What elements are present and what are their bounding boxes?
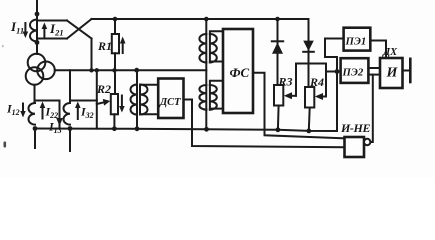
R3 wiper arrow [290,95,296,97]
svg-text:R2: R2 [96,82,111,96]
label R1 [97,39,112,53]
wire: T3 lower right bottom stub to FS [210,109,224,110]
current transformer TA2 winding (2 bumps) [28,103,35,125]
wire: T3 lower left bottom to bottom bus [205,110,207,130]
wire: T3 lower right top stub to FS [210,81,224,85]
wire: phase B drop from T1 to winding [34,85,36,103]
wire: T3 upper right top stub to FS [210,31,224,34]
junction dot [95,68,99,72]
label DST [159,97,181,108]
resistor R1 [112,34,119,53]
wire: R2 wiper arrow [97,102,104,104]
resistor R4 (with wiper) [305,87,314,108]
wire: phase C tail [69,129,71,152]
wire: middle bus [55,69,207,71]
svg-text:I12: I12 [6,102,20,118]
wire: I block output [403,70,409,72]
block DST [158,79,183,119]
wire: T3 upper left top to top bus [205,19,207,34]
wire: transposition X crossing [67,21,92,39]
label PE1 [345,36,367,48]
svg-text:I21: I21 [49,21,64,38]
wire: wiper link R3-R4 (pi shape) [296,64,326,97]
label I [386,66,399,81]
svg-text:ПЭ2: ПЭ2 [342,67,364,79]
svg-text:R3: R3 [278,74,293,88]
wire: I22 loop right side with I13 down arrow [59,101,61,129]
output terminal bar [409,59,412,82]
transformer T3 upper right winding (3 bumps with chord) [210,34,217,63]
wire: T2 left top to middle bus [136,70,138,84]
junction dot [204,127,209,132]
wire: PE1 output to I block top [370,41,386,59]
transformer T3 upper left winding (3 bumps with chord) [199,34,206,63]
wire: phase B tail [34,129,36,149]
svg-text:I32: I32 [80,105,94,121]
block PE2 [341,58,369,83]
svg-text:ДСТ: ДСТ [159,97,181,108]
diode VD1 [277,19,279,85]
junction dot [275,17,280,22]
transformer T3 lower right winding (3 bumps with chord) [210,85,217,110]
scan speck left edge [4,142,7,148]
label PE2 [342,67,364,79]
label I22 with up arrow [42,105,44,119]
junction dot [68,126,73,131]
label DH [382,47,398,58]
transformer T2 left winding (3 bumps with chord) [131,85,138,115]
label I13 [48,120,62,136]
junction dot [276,127,281,132]
arrow down beside R2 [121,96,123,108]
label I32 with up arrow [77,105,79,119]
svg-text:ПЭ1: ПЭ1 [345,36,367,48]
wire: primary phase A vertical [36,1,38,54]
svg-text:I22: I22 [45,105,59,121]
label R2 [96,82,111,96]
svg-text:ДХ: ДХ [382,47,398,58]
wire: branch from bottom bus to AND-NOT input 1 [265,129,345,138]
wire: branch to PE2 input [326,71,341,73]
wire: R1 top feed from top bus [114,19,116,34]
svg-text:ФС: ФС [230,65,250,80]
label I21 with up arrow [43,26,45,37]
junction dot [89,68,93,72]
transformer T3 lower left winding (3 bumps with chord) [199,85,206,110]
wire: I32 loop top edge [70,100,97,102]
wire: I22 loop top edge [35,100,60,102]
wire: loop right side / R2 wiper riser [96,70,98,128]
resistor R2 (with wiper) [111,94,118,114]
label R3 [278,74,293,88]
svg-text:И-НЕ: И-НЕ [340,121,370,135]
block I (DH) [380,58,403,88]
wire: I21 measuring loop top edge [37,20,67,22]
transformer T1 (three overlapping circles) [28,54,46,72]
label I12 with down arrow [6,102,20,118]
svg-text:I11: I11 [10,19,24,36]
wire: T3 upper right bottom stub to FS [210,62,224,63]
junction dot [33,126,38,131]
svg-text:R4: R4 [309,75,324,89]
junction dot [35,12,40,17]
junction dot [35,40,40,45]
label R4 [309,75,324,89]
wire: riser from bottom bus to PE1 (zigzag) [325,39,344,132]
wire: T2 right bottom stub to DST [140,113,159,115]
junction dot [113,17,118,22]
wire: R3 bottom to bottom bus [277,106,280,130]
wire: series link T3 windings through middle bus [205,63,207,86]
current transformer TA3 winding (2 bumps) [63,103,70,125]
block AND-NOT (I-NE) [345,137,365,157]
svg-text:И: И [386,66,399,81]
block FS [223,29,253,113]
wire: DST output to AND-NOT input 2 [184,100,345,148]
current transformer TA1 winding (2 bumps) [30,20,37,42]
svg-text:R1: R1 [97,39,112,53]
wire: top bus corner down to VD2 [308,18,310,20]
wire: PE2 output lower to I block [368,74,380,76]
junction dot [335,69,340,74]
wire: X drop to middle bus [91,39,93,71]
junction dot [306,129,311,134]
wire: T2 left bottom to bottom bus [136,115,138,129]
block PE1 [344,28,371,51]
arrow up beside R1 [122,42,124,53]
junction dot [135,126,140,131]
wire: bottom bus [35,129,337,132]
wire: phase C drop from middle bus [69,70,71,103]
junction dot [112,126,117,131]
wire: R1 to R2 series [114,53,116,94]
diode VD2 [308,19,310,87]
resistor R3 (with wiper) [274,85,283,106]
wire: PE2 output upper to I block [368,67,380,69]
wire: R2 bottom to bottom bus [113,114,115,128]
label FS [230,65,250,80]
transformer T2 right winding (3 bumps with chord) [140,85,148,115]
wire: FS output right then down to bottom bus [253,73,265,130]
R4 wiper arrow [321,96,326,98]
junction dot [204,17,209,22]
wire: I21 measuring loop bottom edge [37,38,67,40]
junction dot [112,68,116,72]
inversion bubble [364,139,370,145]
wire: T2 right top stub to DST [140,84,159,86]
junction dot [134,68,139,73]
wire: top bus [92,18,309,20]
label I-NE [340,121,370,135]
wire: R4 bottom to bottom bus [308,108,311,131]
wire: AND-NOT output riser to I block input [370,75,372,142]
label I11 with down arrow [10,19,24,36]
